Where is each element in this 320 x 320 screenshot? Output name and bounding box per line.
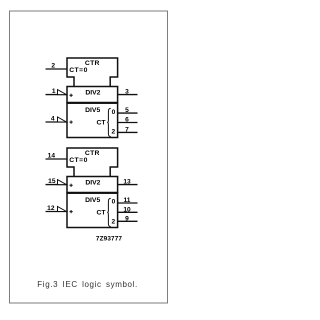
svg-text:2: 2 xyxy=(111,218,115,225)
svg-text:1: 1 xyxy=(52,88,56,95)
pin 4 wire xyxy=(46,121,68,123)
pin 12 falling-edge indicator triangle xyxy=(58,207,67,212)
counter U2 common control block CTR outline xyxy=(67,148,118,177)
svg-text:15: 15 xyxy=(48,178,56,185)
section DIV2 of U1 xyxy=(67,87,118,103)
brace for CT outputs (U2) xyxy=(107,198,111,226)
pin 14 wire xyxy=(46,158,68,160)
svg-text:14: 14 xyxy=(48,153,56,160)
section DIV2 of U2 xyxy=(67,177,118,193)
pin 13 wire xyxy=(118,184,138,186)
pin 1 wire xyxy=(46,94,68,96)
svg-text:11: 11 xyxy=(124,197,131,204)
svg-text:2: 2 xyxy=(111,129,115,136)
pin 15 falling-edge indicator triangle xyxy=(58,180,67,185)
svg-text:10: 10 xyxy=(123,206,131,213)
pin 6 wire xyxy=(118,122,138,124)
svg-text:12: 12 xyxy=(47,205,55,212)
pin 15 wire xyxy=(46,184,68,186)
plus sign DIV2 input (U1) xyxy=(70,94,73,96)
svg-text:5: 5 xyxy=(125,107,129,114)
svg-text:DIV2: DIV2 xyxy=(85,179,100,186)
pin 12 wire xyxy=(46,211,68,213)
svg-text:CT=0: CT=0 xyxy=(69,67,88,74)
svg-text:13: 13 xyxy=(123,179,131,186)
pin 2 wire xyxy=(46,68,68,70)
plus sign DIV5 input (U1) xyxy=(70,121,73,123)
svg-text:0: 0 xyxy=(112,109,116,116)
pin 5 wire xyxy=(118,112,138,114)
svg-text:Fig.3 IEC logic symbol.: Fig.3 IEC logic symbol. xyxy=(37,280,138,289)
section DIV5 of U2 xyxy=(67,193,118,227)
counter U1 common control block CTR outline xyxy=(67,58,118,87)
svg-text:CT: CT xyxy=(96,120,106,127)
svg-text:7: 7 xyxy=(125,126,129,133)
section DIV5 of U1 xyxy=(67,103,118,137)
pin 10 wire xyxy=(118,211,138,213)
svg-text:0: 0 xyxy=(112,199,116,206)
pin 7 wire xyxy=(118,131,138,133)
svg-text:3: 3 xyxy=(125,89,129,96)
svg-text:CT=0: CT=0 xyxy=(69,157,88,164)
pin 11 wire xyxy=(118,202,138,204)
svg-text:2: 2 xyxy=(51,63,55,70)
pin 1 falling-edge indicator triangle xyxy=(58,90,67,95)
svg-text:4: 4 xyxy=(51,115,55,122)
svg-text:9: 9 xyxy=(125,215,129,222)
pin 3 wire xyxy=(118,94,138,96)
pin 9 wire xyxy=(118,220,138,222)
page border frame (decorative) xyxy=(10,11,168,303)
svg-text:CT: CT xyxy=(96,210,106,217)
pin 4 falling-edge indicator triangle xyxy=(58,117,67,122)
svg-text:DIV2: DIV2 xyxy=(85,89,100,96)
plus sign DIV2 input (U2) xyxy=(70,184,73,186)
svg-text:DIV5: DIV5 xyxy=(85,107,100,114)
brace for CT outputs (U1) xyxy=(107,108,111,136)
plus sign DIV5 input (U2) xyxy=(70,211,73,213)
svg-text:6: 6 xyxy=(125,117,129,124)
svg-text:DIV5: DIV5 xyxy=(85,197,100,204)
svg-text:7Z93777: 7Z93777 xyxy=(96,235,123,242)
